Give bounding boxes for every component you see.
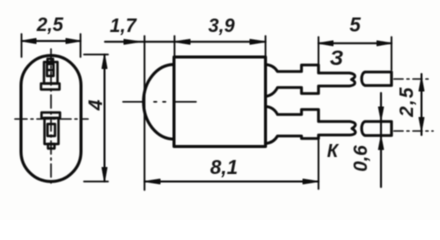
dimension 1,7: extension line at dome tip (also 8,1 left extension) <box>144 36 146 190</box>
svg-text:2,5: 2,5 <box>397 86 418 118</box>
svg-text:0,6: 0,6 <box>351 145 372 172</box>
side view body <box>174 57 266 147</box>
dimension 1,7 / 3,9 shared dimension line <box>105 41 266 43</box>
top lead end segment (after break) <box>362 72 392 86</box>
svg-text:К: К <box>327 141 340 161</box>
dimension 2,5 front width: extension lines <box>21 34 23 57</box>
dimension 2,5 front width: dimension line <box>22 40 81 42</box>
front view bottom pin (lead cross-section) <box>42 113 61 149</box>
dimension 8,1: arrows <box>145 179 161 184</box>
dimension 3,9: extension line above body rear face <box>265 36 267 57</box>
svg-text:2,5: 2,5 <box>36 15 64 36</box>
svg-text:3,9: 3,9 <box>208 16 235 37</box>
dimension 4 front height: arrows <box>102 55 107 69</box>
dimension 3,9: right arrow <box>250 39 266 44</box>
side view dome lens <box>144 65 174 140</box>
top lead end centerline <box>394 78 428 80</box>
dimension 1,7: left arrow <box>124 39 140 44</box>
dimension 8,1: right extension line <box>318 140 320 189</box>
svg-text:8,1: 8,1 <box>210 157 238 179</box>
bottom lead end segment (after break) <box>362 122 392 136</box>
front view vertical centerline <box>50 49 52 187</box>
dimension 4 front height: extension lines <box>84 54 108 56</box>
top lead (З) outline <box>266 65 355 97</box>
dimension 5: extension lines <box>318 37 320 64</box>
dimension 5: arrows <box>319 41 334 46</box>
dimension 3,9: left arrow <box>175 39 191 44</box>
dimension 2,5 front width: arrows <box>22 39 37 44</box>
front view body outline (stadium) <box>21 56 81 182</box>
dimension 2,5 lead pitch: dimension line <box>421 74 423 135</box>
svg-text:4: 4 <box>86 99 107 111</box>
dimension 5: dimension line <box>319 42 392 44</box>
dimension 3,9: extension line above body front face <box>174 36 176 57</box>
svg-text:З: З <box>330 47 344 70</box>
dimension 8,1: dimension line <box>145 181 319 183</box>
bottom lead (К) outline <box>266 107 356 144</box>
front view horizontal centerline <box>15 118 88 120</box>
front view top pin (lead cross-section) <box>41 59 60 90</box>
dimension 4 front height: dimension line <box>104 55 106 182</box>
bottom lead end centerline <box>394 130 433 132</box>
side view axis centerline <box>123 101 143 103</box>
svg-text:1,7: 1,7 <box>110 16 138 37</box>
dimension 0,6: arrows <box>379 107 384 120</box>
dimension 2,5 lead pitch: arrows <box>419 78 424 92</box>
dimension 0,6 lead thickness: dimension line through end segment <box>380 93 382 187</box>
svg-text:5: 5 <box>349 15 361 37</box>
